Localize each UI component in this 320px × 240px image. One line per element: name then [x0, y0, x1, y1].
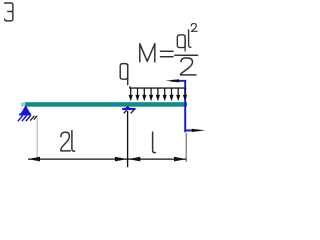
label l — [153, 132, 156, 153]
dim arrow right (points right) — [174, 157, 186, 162]
label 3 (problem number) — [5, 3, 13, 21]
denominator 2 — [180, 58, 196, 75]
pin support A (left) — [18, 105, 37, 121]
dimension extension line at right end (gray) — [185, 133, 187, 162]
fraction bar — [175, 54, 198, 56]
equals sign — [161, 51, 174, 56]
label 2l — [61, 131, 75, 152]
roller support B (under beam) — [122, 106, 135, 113]
dimension line — [28, 158, 186, 160]
formula M = ql^2 / 2 — [140, 24, 198, 75]
numerator l — [189, 30, 191, 47]
dimension extension line at B (black) — [127, 111, 129, 167]
dim arrows middle pair — [115, 157, 127, 162]
exponent 2 — [191, 24, 197, 32]
numerator q — [177, 35, 185, 48]
beam — [25, 102, 187, 107]
moment arrowhead top (points left) — [166, 79, 180, 82]
moment arrowhead bottom (points right) — [192, 129, 206, 132]
dimension extension line at A (gray) — [36, 119, 38, 159]
dim arrow left (points left) — [28, 157, 40, 162]
last load arrow (over blue line) — [184, 88, 186, 96]
distributed load arrows — [131, 88, 179, 96]
letter M — [140, 44, 155, 62]
distributed load q: top bar — [129, 87, 186, 88]
label q — [120, 64, 128, 85]
moment arm (blue bracket) — [171, 81, 192, 132]
